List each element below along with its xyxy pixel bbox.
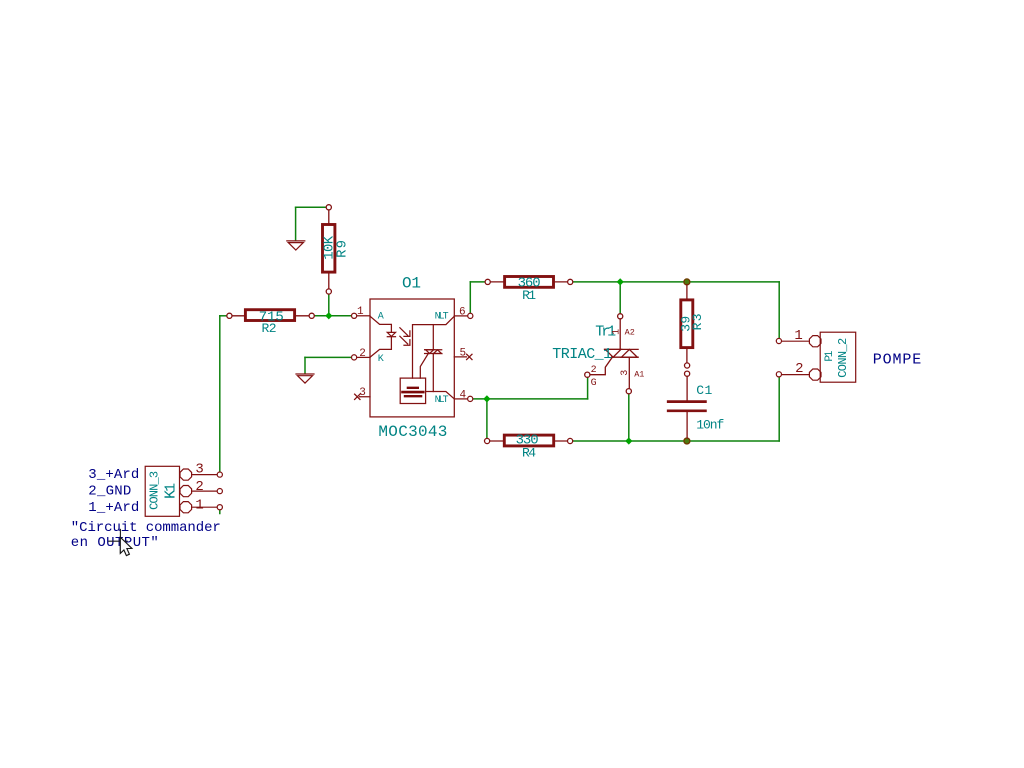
- svg-text:1: 1: [357, 306, 364, 318]
- svg-text:CONN_2: CONN_2: [836, 338, 850, 378]
- svg-text:O1: O1: [402, 274, 421, 292]
- wire R2 left corner: [220, 315, 227, 317]
- svg-text:2: 2: [359, 348, 366, 360]
- zero crossing circuit box: [400, 378, 425, 403]
- wire R4 right to bottom-right corner: [573, 440, 779, 442]
- ground symbol top-left: [287, 241, 305, 250]
- svg-text:2: 2: [795, 361, 803, 377]
- resistor R3 39: [681, 285, 693, 369]
- svg-text:A: A: [378, 312, 384, 323]
- P1 pin 1: [782, 340, 810, 342]
- mouse crosshair: [109, 529, 128, 552]
- wire gnd2 vertical: [304, 357, 306, 373]
- svg-text:en OUTPUT": en OUTPUT": [71, 535, 159, 551]
- pin 2 (K): [357, 356, 370, 358]
- svg-text:2: 2: [195, 479, 203, 495]
- svg-text:3: 3: [195, 461, 203, 477]
- svg-text:POMPE: POMPE: [873, 352, 922, 369]
- connector K1 CONN_3 body: [145, 466, 179, 516]
- wire triac A1 down: [628, 394, 630, 441]
- junction+pin R3 top node (olive): [684, 279, 690, 285]
- svg-text:2: 2: [591, 365, 597, 376]
- internal triac symbol: [425, 350, 442, 354]
- svg-text:NLT: NLT: [435, 312, 449, 323]
- mouse cursor arrow: [120, 537, 132, 555]
- K1 pad 2: [180, 486, 192, 497]
- wire R1 right to top-right corner: [573, 281, 779, 283]
- svg-text:P1: P1: [824, 350, 836, 361]
- wire stub K1 pin1: [219, 510, 221, 514]
- K1 pad 3: [180, 469, 192, 480]
- junction+pin C1 bottom node (olive): [684, 438, 690, 444]
- svg-text:1: 1: [611, 329, 622, 335]
- svg-text:R4: R4: [522, 446, 536, 461]
- junction A1/bottom node: [625, 437, 632, 444]
- svg-text:K1: K1: [163, 483, 180, 499]
- wire R9-bottom to junction: [328, 294, 330, 316]
- svg-text:5: 5: [459, 347, 466, 359]
- junction A2 node: [617, 278, 624, 285]
- svg-text:3_+Ard: 3_+Ard: [88, 467, 139, 483]
- resistor R9 10K: [323, 205, 335, 294]
- svg-text:TRIAC_1: TRIAC_1: [552, 346, 612, 363]
- pin 6: [454, 315, 467, 317]
- K1 pin 2: [192, 490, 218, 492]
- wire R9-top to gnd corner: [296, 206, 326, 208]
- wire to R1 left: [470, 281, 485, 283]
- wire gate vertical: [587, 378, 589, 399]
- wire junction to triac A2: [619, 282, 621, 314]
- light arrow 1: [400, 328, 410, 337]
- ground symbol below MOC pin2: [296, 374, 314, 383]
- svg-text:K: K: [378, 354, 384, 365]
- svg-text:1: 1: [195, 497, 203, 513]
- wire down to P1 pin1: [778, 282, 780, 338]
- svg-text:CONN_3: CONN_3: [147, 471, 161, 510]
- wire R2 right to MOC pin1: [315, 315, 352, 317]
- internal photo-triac wiring: [413, 316, 455, 378]
- wire MOC pin4 to gate corner: [473, 398, 587, 400]
- svg-text:10nf: 10nf: [696, 417, 724, 432]
- svg-text:R9: R9: [335, 240, 351, 258]
- svg-text:"Circuit commander: "Circuit commander: [71, 520, 221, 536]
- svg-text:2_GND: 2_GND: [88, 484, 131, 500]
- junction gate/R4 node: [483, 395, 490, 402]
- resistor R4 330: [485, 435, 573, 446]
- svg-text:3: 3: [620, 370, 631, 376]
- svg-text:MOC3043: MOC3043: [378, 423, 447, 441]
- op-amp U1 optocoupler O1 MOC3043 body: [370, 299, 454, 417]
- connector P1 CONN_2 body: [820, 332, 856, 382]
- P1 pad 2: [809, 369, 821, 380]
- svg-text:R2: R2: [262, 321, 277, 336]
- light arrow 2: [400, 336, 410, 345]
- pin 5 (nc x-mark): [454, 354, 472, 359]
- transistor Q1 triac Tr1 TRIAC_1: [585, 314, 638, 394]
- svg-text:R3: R3: [690, 313, 705, 330]
- resistor R1 360: [485, 277, 573, 288]
- P1 pad 1: [809, 336, 821, 347]
- internal LED diode: [370, 316, 391, 332]
- svg-text:1: 1: [794, 328, 802, 344]
- svg-text:3: 3: [359, 387, 366, 399]
- wire gnd1 vertical: [295, 207, 297, 240]
- wire MOC pin2 to gnd2: [305, 356, 351, 358]
- wire down to K1 pin3: [219, 316, 221, 472]
- pin 4: [454, 398, 467, 400]
- pin 3 (nc x-mark): [355, 394, 370, 399]
- zero crossing circuit text: [403, 388, 424, 396]
- wire junction down to R4 left: [486, 399, 488, 438]
- K1 pin 1: [192, 506, 218, 508]
- wire MOC pin6 up: [469, 282, 471, 313]
- svg-text:A1: A1: [634, 370, 644, 380]
- junction R9/R2/pin1 node: [325, 312, 332, 319]
- K1 pin 3: [192, 474, 218, 476]
- K1 pad 1: [180, 502, 192, 513]
- svg-text:6: 6: [459, 306, 466, 318]
- svg-text:1_+Ard: 1_+Ard: [88, 500, 139, 516]
- resistor R2 715: [227, 310, 315, 321]
- svg-text:NLT: NLT: [435, 395, 449, 406]
- pin 1 (A): [357, 315, 370, 317]
- svg-text:G: G: [591, 378, 597, 389]
- svg-text:A2: A2: [625, 327, 635, 337]
- wire up to P1 pin2: [778, 377, 780, 442]
- internal gate line: [420, 354, 428, 379]
- svg-text:4: 4: [459, 389, 466, 401]
- svg-text:R1: R1: [522, 288, 536, 303]
- P1 pin 2: [782, 374, 810, 376]
- capacitor C1 10nf: [668, 371, 705, 438]
- svg-text:C1: C1: [696, 383, 712, 398]
